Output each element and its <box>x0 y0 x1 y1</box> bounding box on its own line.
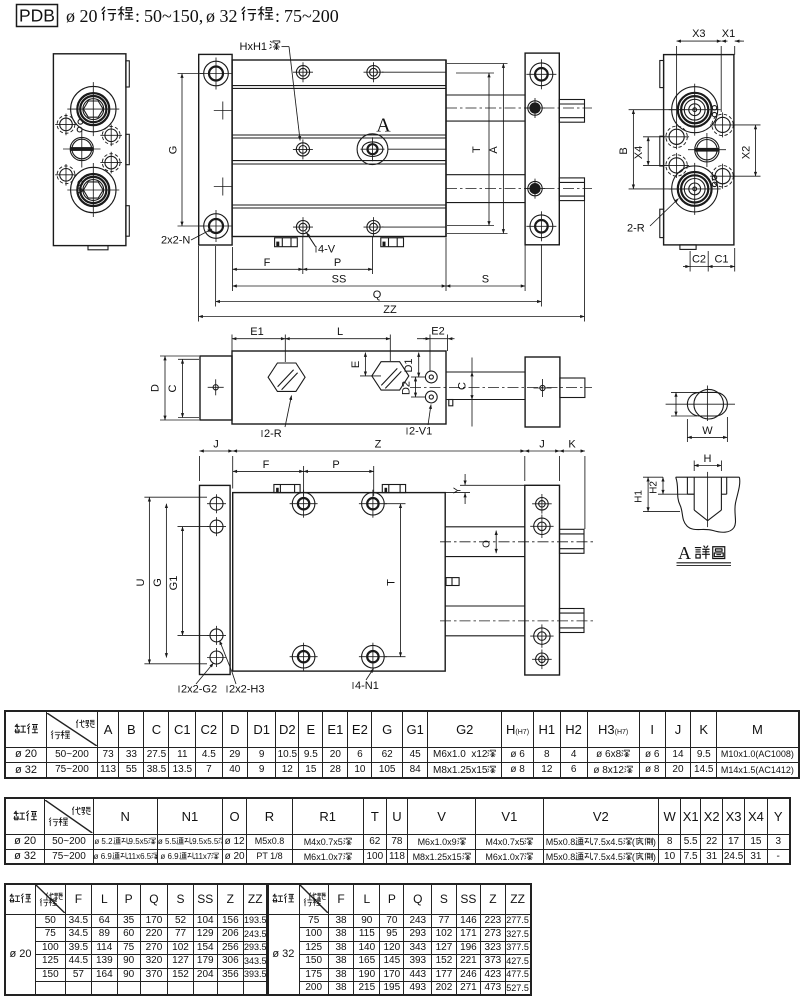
svg-text:C2: C2 <box>692 254 706 266</box>
svg-text:4-N1: 4-N1 <box>355 680 379 692</box>
svg-text:X3: X3 <box>692 28 705 40</box>
svg-text:2x2-G2: 2x2-G2 <box>181 684 217 696</box>
svg-text:75~200: 75~200 <box>284 6 339 26</box>
svg-text:S: S <box>482 274 489 286</box>
svg-text:A: A <box>678 543 691 563</box>
svg-text:D2: D2 <box>401 381 413 395</box>
svg-text:H2: H2 <box>649 481 660 494</box>
svg-text:K: K <box>568 439 576 451</box>
svg-text:H: H <box>704 453 712 465</box>
svg-text:W: W <box>702 425 713 437</box>
svg-text:2-R: 2-R <box>264 428 282 440</box>
svg-text:J: J <box>539 439 545 451</box>
svg-text:E1: E1 <box>250 326 263 338</box>
svg-text:G1: G1 <box>168 576 180 591</box>
svg-text:T: T <box>386 579 398 586</box>
svg-text:X4: X4 <box>633 146 645 159</box>
svg-text:F: F <box>263 459 270 471</box>
svg-text:B: B <box>618 147 630 154</box>
svg-text:ø 20: ø 20 <box>66 6 98 26</box>
svg-text:Z: Z <box>375 439 382 451</box>
svg-text:2x2-H3: 2x2-H3 <box>229 684 264 696</box>
svg-text:U: U <box>135 578 147 586</box>
svg-text:2-R: 2-R <box>627 223 645 235</box>
svg-text:D1: D1 <box>403 358 415 372</box>
svg-text:L: L <box>337 326 343 338</box>
svg-text:SS: SS <box>332 274 347 286</box>
svg-text:F: F <box>264 257 271 269</box>
svg-text:X1: X1 <box>722 28 735 40</box>
svg-text:D: D <box>150 384 162 392</box>
svg-text:H1: H1 <box>634 490 645 503</box>
svg-text:C: C <box>457 382 469 390</box>
svg-text:ø 32: ø 32 <box>206 6 238 26</box>
svg-text:Y: Y <box>453 487 464 494</box>
svg-text:PDB: PDB <box>19 6 55 26</box>
svg-text:G: G <box>152 578 164 587</box>
svg-text:ZZ: ZZ <box>383 304 397 316</box>
svg-text:C: C <box>167 384 179 392</box>
svg-text:E: E <box>350 361 362 368</box>
svg-text:C1: C1 <box>714 254 728 266</box>
svg-text:50~150,: 50~150, <box>144 6 203 26</box>
svg-text:G: G <box>168 146 180 155</box>
svg-text:J: J <box>213 439 219 451</box>
svg-text:A: A <box>488 146 500 154</box>
svg-text:P: P <box>332 459 339 471</box>
svg-text:2x2-N: 2x2-N <box>161 235 190 247</box>
svg-text:Q: Q <box>373 289 382 301</box>
svg-text::: : <box>135 6 140 26</box>
svg-text:A: A <box>376 115 391 137</box>
svg-text:T: T <box>471 146 483 153</box>
svg-text:4-V: 4-V <box>318 244 336 256</box>
svg-text:X2: X2 <box>741 146 753 159</box>
svg-text:E2: E2 <box>431 326 444 338</box>
svg-text:O: O <box>482 540 493 548</box>
svg-text:HxH1: HxH1 <box>240 41 268 53</box>
svg-text::: : <box>275 6 280 26</box>
svg-text:2-V1: 2-V1 <box>409 426 432 438</box>
svg-text:P: P <box>334 257 341 269</box>
